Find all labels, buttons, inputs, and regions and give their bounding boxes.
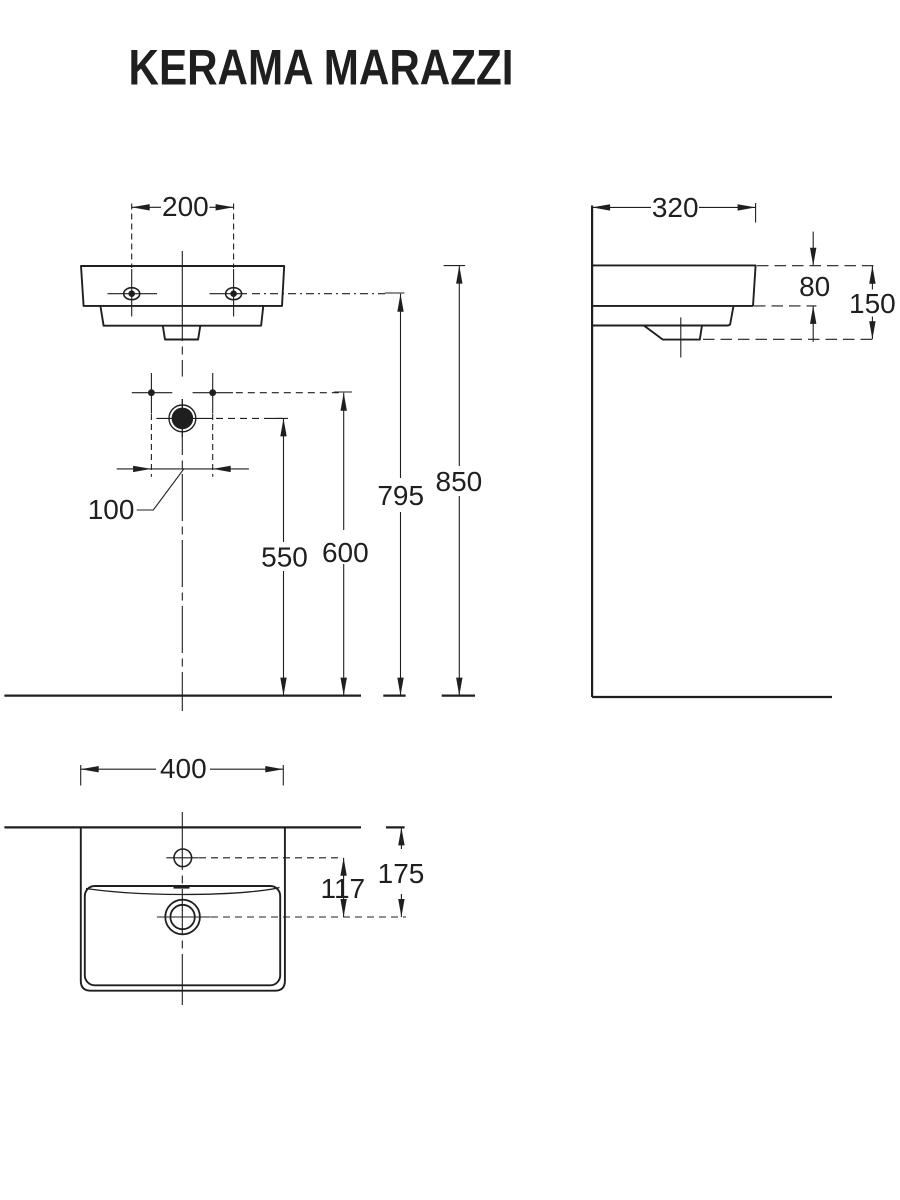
side view: wall line bbox=[591, 206, 593, 698]
plan view: wall tick for 175 bbox=[386, 826, 405, 828]
floor tick under 850 bbox=[442, 694, 475, 696]
front view: drain hole circle bbox=[156, 399, 212, 437]
dimension 850: line, arrows, ticks bbox=[444, 266, 466, 696]
dimension 795: line, arrows, ticks bbox=[385, 293, 405, 696]
plan view: faucet hole bbox=[166, 849, 198, 867]
svg-text:117: 117 bbox=[320, 873, 365, 904]
front view: basin tier 2 outline bbox=[100, 306, 263, 326]
dash-dot line from faucet hole to 795 dimension bbox=[252, 293, 385, 295]
dimension 100: dimension line with outside arrows bbox=[117, 466, 249, 472]
svg-text:550: 550 bbox=[261, 542, 308, 573]
front view: vertical centerline bbox=[181, 251, 183, 711]
dimension 600: line, arrows, ticks bbox=[334, 392, 352, 696]
dimension 175: line, arrows, label bbox=[398, 827, 404, 917]
side view: drain trap profile bbox=[644, 326, 702, 340]
side view: basin profile tier 1 bbox=[592, 265, 756, 306]
dimension 550: line, arrows, ticks bbox=[271, 418, 289, 695]
side view: dashed extension at tier1 bottom level bbox=[754, 305, 816, 307]
svg-text:80: 80 bbox=[799, 271, 830, 302]
plan view: drain hole double circle bbox=[157, 900, 211, 935]
plan view: centerline bbox=[181, 812, 183, 1005]
dimension 200: dimension line and arrows bbox=[132, 204, 234, 210]
plan view: outer body outline bbox=[81, 827, 285, 990]
side view: drain centerline bbox=[680, 317, 682, 357]
svg-text:200: 200 bbox=[162, 191, 209, 222]
front view: drain fitting tier 3 bbox=[163, 326, 201, 340]
dimension 100: leader line bbox=[137, 469, 184, 510]
plan view: wall line bbox=[4, 826, 361, 828]
dimension 100: extension dashed lines bbox=[150, 414, 152, 477]
dimension 80: outside arrows and label bbox=[810, 232, 816, 342]
svg-text:175: 175 bbox=[378, 858, 425, 889]
front view: mounting dots bbox=[132, 373, 233, 414]
dimension 150: arrows and label bbox=[869, 266, 875, 340]
front view: right faucet hole bbox=[210, 269, 248, 317]
plan view: overflow slot mark bbox=[174, 886, 190, 889]
svg-text:150: 150 bbox=[849, 288, 896, 319]
dotted line from drain to 175 dimension bbox=[211, 916, 406, 918]
front view: floor line bbox=[4, 694, 361, 696]
svg-text:320: 320 bbox=[652, 192, 699, 223]
svg-text:100: 100 bbox=[88, 494, 135, 525]
side view: dashed extension at drain bottom level bbox=[703, 338, 877, 340]
svg-text:850: 850 bbox=[436, 466, 483, 497]
side view: basin profile tier 2 bbox=[592, 306, 733, 326]
svg-text:600: 600 bbox=[322, 537, 369, 568]
plan view: basin inner edge curve bbox=[86, 888, 280, 895]
front view: basin body tier 1 outline bbox=[81, 266, 284, 306]
dimension 400: line, arrows, ticks, label bbox=[81, 765, 284, 786]
svg-text:KERAMA MARAZZI: KERAMA MARAZZI bbox=[129, 40, 514, 96]
dashed line from drain to 550 dimension bbox=[216, 417, 284, 419]
svg-text:400: 400 bbox=[160, 753, 207, 784]
side view: floor line bbox=[592, 696, 832, 698]
dimension 320: line, arrows, label bbox=[592, 203, 756, 223]
dimension 117: line, arrows, label bbox=[340, 858, 346, 917]
dimension 200: extension dashed lines bbox=[131, 204, 133, 269]
dotted line from faucet hole to 117 dimension bbox=[199, 857, 342, 859]
dashed line from dots to 600 dimension bbox=[236, 392, 344, 394]
plan view: inner basin rounded rectangle bbox=[85, 886, 280, 985]
floor tick under 795 bbox=[383, 694, 405, 696]
side view: dashed extension at rim top level bbox=[757, 265, 877, 267]
front view: left faucet hole bbox=[108, 269, 158, 317]
svg-text:795: 795 bbox=[377, 480, 424, 511]
